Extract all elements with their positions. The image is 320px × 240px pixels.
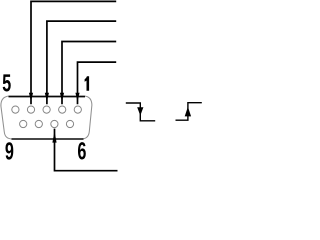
wire from pin 7 [55, 129, 118, 171]
wire to pin 3 [47, 21, 116, 104]
label pin 9 [5, 142, 13, 159]
wire to pin 1 [78, 62, 117, 104]
arrow into pin 2 [60, 93, 64, 102]
connector bottom edge [12, 138, 84, 140]
rising-edge symbol [176, 103, 202, 121]
pin 6 [66, 120, 73, 127]
falling-edge symbol [126, 103, 155, 121]
connector J1 DB9 body outline [1, 96, 92, 139]
label pin 6 [78, 142, 86, 159]
label pin 1 [85, 76, 90, 91]
pin 5 [12, 106, 19, 113]
arrow into pin 1 [75, 93, 79, 102]
connector top edge [9, 96, 86, 98]
pin 7 [51, 120, 58, 127]
pin 2 [59, 106, 66, 113]
arrow into pin 3 [45, 93, 49, 102]
arrow into pin 7 [52, 131, 56, 142]
rising-edge arrow [185, 107, 191, 117]
arrow into pin 4 [29, 93, 33, 102]
pin 9 [20, 120, 27, 127]
pin 8 [35, 120, 42, 127]
pin 4 [27, 106, 34, 113]
label pin 5 [3, 74, 11, 91]
falling-edge arrow [137, 107, 143, 115]
pin 3 [43, 106, 50, 113]
pin 1 [74, 106, 81, 113]
wire to pin 2 [62, 42, 116, 105]
wire to pin 4 [31, 1, 116, 104]
